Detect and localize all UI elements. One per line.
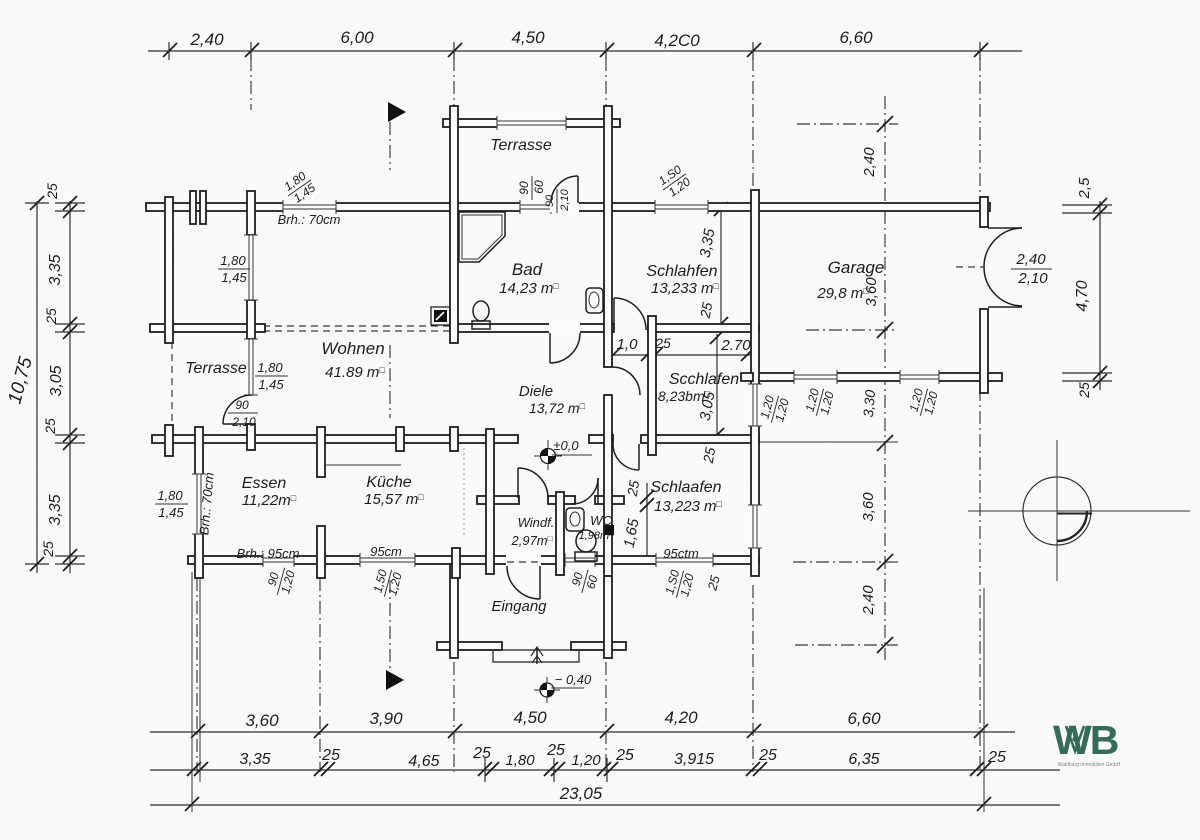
- fraction 1,80/1,45 terrace lower: [255, 360, 288, 392]
- window east lower 1.20: [748, 505, 762, 548]
- svg-text:3,05: 3,05: [48, 365, 65, 396]
- window wohnen-west lower 1.80: [244, 339, 258, 395]
- door bad-terrace: [550, 176, 579, 212]
- log stub garage sw: [741, 373, 753, 381]
- witness lines bottom: [191, 572, 193, 812]
- svg-text:1,45: 1,45: [158, 505, 184, 520]
- svg-text:1,45: 1,45: [221, 270, 247, 285]
- door mid lobby in x604 wall: [612, 367, 640, 395]
- window wohnen-west upper 1.80: [244, 235, 258, 300]
- svg-text:Eingang: Eingang: [491, 598, 547, 615]
- svg-text:Essen: Essen: [242, 475, 287, 492]
- porch wall right: [604, 576, 612, 658]
- wall garage south: [753, 373, 988, 381]
- svg-text:41.89 m□: 41.89 m□: [325, 364, 385, 381]
- rotated fraction 90/2,10 bad door: [544, 188, 571, 213]
- wall wohnen west mid: [247, 300, 255, 339]
- svg-text:3,90: 3,90: [369, 709, 403, 728]
- svg-text:− 0,40: − 0,40: [555, 672, 592, 687]
- grid line x=454 bottom: [453, 662, 455, 772]
- svg-text:60: 60: [532, 180, 546, 194]
- svg-text:95cm: 95cm: [370, 544, 402, 559]
- wall essen west x195: [195, 427, 203, 578]
- wall y435 piece: [589, 435, 613, 443]
- svg-text:1,20: 1,20: [571, 752, 601, 769]
- svg-text:4,70: 4,70: [1074, 280, 1091, 311]
- rotated fraction 1,50/1,20 schlafen window: [655, 162, 695, 202]
- svg-text:Terrasse: Terrasse: [185, 360, 247, 377]
- toilet bad: [473, 301, 489, 321]
- log stub south x456: [452, 548, 460, 578]
- svg-text:Diele: Diele: [519, 383, 553, 400]
- svg-text:6,60: 6,60: [847, 709, 881, 728]
- svg-text:1,80: 1,80: [505, 752, 535, 769]
- wall porch bottom right: [571, 642, 626, 650]
- interior dim y=355: [606, 354, 758, 356]
- svg-text:90: 90: [544, 194, 556, 207]
- wc toilet: [576, 530, 596, 552]
- log stub sw terrace corner: [165, 425, 173, 456]
- grid line x=980 top: [979, 58, 981, 202]
- rotated fraction 90/60 south wc: [567, 566, 601, 597]
- svg-text:6,35: 6,35: [848, 751, 879, 768]
- drain symbol circle right: [968, 510, 1190, 512]
- open wall dashed (Wohnen north): [263, 325, 452, 327]
- svg-text:Scchlafen: Scchlafen: [669, 371, 739, 388]
- level mark 0.0: [534, 440, 592, 470]
- grid line x=197 bottom: [196, 578, 198, 772]
- svg-text:25: 25: [42, 418, 58, 435]
- wall mid y324 left (terrace): [150, 324, 265, 332]
- svg-text:WC: WC: [590, 513, 612, 528]
- window south schlaafen 1.50: [656, 553, 713, 567]
- wall garage east x980: [980, 197, 988, 227]
- svg-text:Garage: Garage: [828, 258, 885, 277]
- svg-text:3,60: 3,60: [860, 492, 877, 522]
- log stub wall y435 x454: [450, 427, 458, 451]
- svg-text:13,233 m□: 13,233 m□: [651, 280, 720, 297]
- svg-text:25: 25: [321, 747, 340, 764]
- svg-text:1,98m□: 1,98m□: [579, 530, 615, 542]
- svg-text:4,20: 4,20: [664, 708, 698, 727]
- right dimension line: [1099, 201, 1101, 390]
- svg-text:1,80: 1,80: [220, 253, 246, 268]
- door schlafen north (1,0): [614, 298, 646, 330]
- svg-text:4,50: 4,50: [513, 708, 547, 727]
- top dimension line: [148, 50, 1022, 52]
- wall kueche/windfang x486: [486, 429, 494, 574]
- svg-text:25: 25: [43, 308, 59, 325]
- wall south exterior: [188, 556, 759, 564]
- fraction 1,80/1,45 terrace upper: [218, 253, 250, 285]
- svg-text:4,2C0: 4,2C0: [654, 31, 700, 50]
- svg-text:2,10: 2,10: [559, 188, 571, 211]
- door schlaafen south-east room: [613, 444, 639, 470]
- shower corner bad: [459, 212, 505, 262]
- wall porch bottom left: [437, 642, 502, 650]
- chimney black box bad: [431, 307, 450, 325]
- rotated fraction 1,20/1,20 east window: [757, 392, 792, 427]
- window north wohnen 1.80: [283, 200, 336, 214]
- svg-text:3,915: 3,915: [674, 751, 714, 768]
- wall west terrace: [165, 197, 173, 343]
- grid line x=606 bottom: [605, 662, 607, 772]
- left dimension lines: [36, 201, 38, 573]
- garage gate doors: [956, 228, 1022, 307]
- grid centerline x=885: [884, 96, 886, 660]
- wall bedroom mid west x648: [648, 316, 656, 455]
- svg-text:25: 25: [546, 742, 565, 759]
- svg-text:Küche: Küche: [366, 474, 411, 491]
- window south essen 90: [263, 553, 294, 567]
- window garage south a: [794, 370, 837, 384]
- svg-text:2.70: 2.70: [720, 337, 751, 354]
- rotated fraction 1,20/1,20 garage b: [906, 385, 941, 420]
- bottom dimension row 1: [150, 731, 1015, 733]
- svg-text:Brh.: 95cm: Brh.: 95cm: [237, 546, 300, 561]
- svg-text:2,5: 2,5: [1076, 177, 1093, 200]
- small black box on wall x604: [604, 525, 614, 535]
- door bad south: [549, 323, 580, 363]
- wall y435 left long: [152, 435, 518, 443]
- svg-text:29,8 m□: 29,8 m□: [816, 285, 869, 302]
- svg-text:3,35: 3,35: [47, 494, 64, 525]
- section arrow top: [388, 102, 406, 122]
- grid line x=320 bottom: [319, 578, 321, 772]
- grid line x=454 top: [453, 58, 455, 118]
- svg-text:2,10: 2,10: [1017, 270, 1048, 287]
- svg-text:25: 25: [987, 749, 1006, 766]
- door entrance: [506, 555, 541, 599]
- fraction 90/60 bad window: [517, 176, 546, 200]
- svg-text:2,40: 2,40: [189, 30, 224, 49]
- wall wohnen west upper: [247, 191, 255, 235]
- svg-text:Waldburg Immobilien GmbH: Waldburg Immobilien GmbH: [1058, 762, 1121, 768]
- rotated fraction 1,20/1,20 garage a: [802, 385, 837, 420]
- window north bad 90/60: [520, 200, 551, 214]
- svg-text:25: 25: [40, 541, 56, 558]
- log stub garage se: [988, 373, 1002, 381]
- wall stub kueche divider upper: [317, 427, 325, 477]
- grid line x=251 top: [250, 58, 252, 110]
- svg-text:13,223 m□: 13,223 m□: [654, 498, 723, 515]
- grid cross ticks on x=885: [797, 123, 898, 125]
- wall y435 right: [641, 435, 759, 443]
- terrace overhang dashed line west: [171, 342, 173, 434]
- wall windf north c: [595, 496, 624, 504]
- wall wohnen west lower: [247, 424, 255, 450]
- wall windf north a: [477, 496, 519, 504]
- svg-text:23,05: 23,05: [559, 784, 603, 803]
- svg-text:±0,0: ±0,0: [553, 438, 579, 453]
- svg-text:2,40: 2,40: [1015, 251, 1046, 268]
- svg-text:1,45: 1,45: [258, 377, 284, 392]
- log stub north x197: [190, 191, 196, 224]
- wall mid y324 Bad south: [450, 324, 614, 332]
- svg-text:13,72 m□: 13,72 m□: [529, 400, 586, 416]
- svg-text:Wohnen: Wohnen: [321, 339, 384, 358]
- wall bad west / terrace west: [450, 106, 458, 343]
- svg-text:90: 90: [235, 398, 249, 412]
- porch wall left: [450, 564, 458, 658]
- grid line x=753 bottom: [752, 585, 754, 772]
- kitchen counter line: [326, 464, 401, 466]
- wall windfang/wc x556: [556, 492, 564, 575]
- wall central x604: [604, 106, 612, 367]
- svg-text:11,22m□: 11,22m□: [242, 492, 297, 509]
- svg-text:1,0: 1,0: [617, 336, 639, 353]
- porch step arrow: [536, 648, 538, 664]
- fraction 1,80/1,45 essen window: [155, 488, 188, 520]
- door wc: [572, 478, 598, 504]
- wall north exterior: [146, 203, 990, 211]
- svg-text:95ctm: 95ctm: [663, 546, 699, 561]
- svg-text:6,60: 6,60: [839, 28, 873, 47]
- window essen west 1.80: [192, 474, 206, 534]
- svg-text:25: 25: [1076, 382, 1092, 399]
- svg-text:6,00: 6,00: [340, 28, 374, 47]
- window north schlafen 1.50: [655, 200, 708, 214]
- sink bad right wall: [586, 288, 603, 313]
- door terrace-wohnen 90/2,10: [223, 395, 252, 424]
- svg-text:Schlahfen: Schlahfen: [646, 263, 717, 280]
- rotated fraction 1,50/1,20 south kueche: [370, 566, 405, 601]
- window garage south b: [900, 370, 939, 384]
- thin line east of house at y=442: [759, 441, 898, 443]
- svg-text:25: 25: [758, 747, 777, 764]
- bottom dimension row 2: [150, 769, 1060, 771]
- wall terrace top: [443, 119, 620, 127]
- svg-text:3,35: 3,35: [47, 254, 64, 285]
- svg-text:25: 25: [700, 446, 719, 465]
- section line x=390: [389, 122, 391, 170]
- interior dim x=717 mid: [710, 330, 724, 344]
- svg-text:2,10: 2,10: [231, 415, 256, 429]
- fraction 2,40/2,10 garage gate: [1011, 251, 1052, 287]
- door windfang: [518, 468, 548, 498]
- window east mid 1.20: [748, 384, 762, 426]
- rotated fraction 90/1,20 south essen: [263, 564, 298, 599]
- svg-text:1,80: 1,80: [257, 360, 283, 375]
- svg-text:15,57 m□: 15,57 m□: [364, 491, 424, 508]
- level mark -0.40: [534, 677, 584, 703]
- wall east exterior x751: [751, 190, 759, 576]
- svg-text:2,97m□: 2,97m□: [511, 533, 553, 548]
- wc sink: [566, 508, 584, 531]
- svg-text:8,23bm□: 8,23bm□: [658, 388, 711, 404]
- svg-text:90: 90: [517, 181, 531, 195]
- window terrace top: [497, 116, 566, 130]
- svg-text:Windf.: Windf.: [518, 515, 555, 530]
- svg-text:25: 25: [615, 747, 634, 764]
- svg-text:3,60: 3,60: [245, 711, 279, 730]
- fraction 90/2,10 west door: [228, 398, 258, 429]
- grid line x=980 bottom: [979, 388, 981, 772]
- svg-text:25: 25: [44, 183, 60, 200]
- rotated fraction 1,50/1,20 south schlaafen: [662, 567, 697, 602]
- svg-text:14,23 m□: 14,23 m□: [499, 280, 559, 297]
- window south kueche 1.50: [360, 553, 415, 567]
- interior dim x=721 upper: [720, 206, 722, 330]
- section arrow bottom: [386, 670, 404, 690]
- svg-text:Schlaafen: Schlaafen: [650, 479, 721, 496]
- grid line x=606 top: [605, 58, 607, 118]
- svg-text:4,50: 4,50: [511, 28, 545, 47]
- svg-text:4,65: 4,65: [408, 753, 439, 770]
- svg-text:3,30: 3,30: [860, 389, 878, 418]
- rotated fraction 1,80/1,45 north window: [280, 168, 320, 208]
- svg-text:25: 25: [624, 479, 643, 498]
- wall stub kueche divider lower: [317, 526, 325, 578]
- window south wc 90/60: [565, 553, 595, 567]
- interior dim x=647 lower: [646, 483, 648, 564]
- svg-text:WB: WB: [1053, 717, 1118, 763]
- svg-text:25: 25: [697, 301, 716, 320]
- svg-text:1,80: 1,80: [157, 488, 183, 503]
- svg-text:2,40: 2,40: [861, 147, 878, 178]
- svg-text:Bad: Bad: [512, 260, 543, 279]
- svg-text:3,35: 3,35: [239, 751, 270, 768]
- wall mid y324 bedrooms: [648, 324, 759, 332]
- bottom dimension row 3: [150, 804, 1060, 806]
- svg-text:25: 25: [472, 745, 491, 762]
- svg-text:2,40: 2,40: [860, 585, 877, 616]
- wall windf north b: [548, 496, 575, 504]
- porch step: [493, 650, 579, 662]
- grid line x=753 top: [752, 58, 754, 200]
- svg-text:Terrasse: Terrasse: [490, 137, 552, 154]
- log stub wall y435 x400: [396, 427, 404, 451]
- svg-text:Brh.: 70cm: Brh.: 70cm: [278, 212, 341, 227]
- kitchen hidden line: [463, 448, 465, 536]
